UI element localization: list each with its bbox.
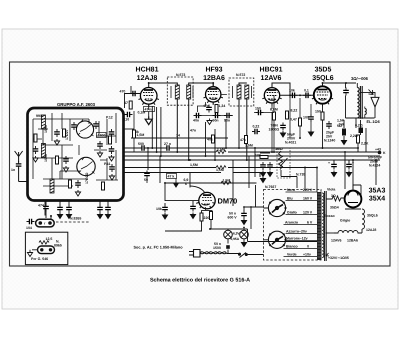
svg-text:1,5M: 1,5M (216, 168, 224, 172)
svg-text:Marrone–12v: Marrone–12v (286, 237, 308, 241)
svg-text:EL.1Ω6: EL.1Ω6 (367, 120, 380, 124)
svg-text:1,5M: 1,5M (223, 179, 231, 183)
svg-text:HCH81: HCH81 (136, 67, 159, 74)
svg-text:Nero: Nero (287, 188, 295, 192)
svg-text:12AJ8: 12AJ8 (137, 75, 158, 82)
svg-text:N.8265: N.8265 (70, 217, 81, 221)
svg-text:35Ω4: 35Ω4 (330, 206, 339, 210)
svg-text:N.4224: N.4224 (369, 164, 380, 168)
svg-text:17Ω27: 17Ω27 (65, 129, 69, 140)
svg-text:220: 220 (204, 216, 210, 220)
svg-text:1,5M: 1,5M (190, 163, 198, 167)
svg-text:10k: 10k (289, 89, 295, 93)
svg-text:0,47: 0,47 (290, 118, 297, 122)
svg-text:1,5M: 1,5M (137, 133, 145, 137)
svg-text:8965: 8965 (54, 244, 62, 248)
svg-text:47k: 47k (240, 138, 246, 142)
svg-text:150: 150 (315, 110, 321, 114)
svg-text:12,5: 12,5 (46, 237, 53, 241)
svg-text:+32V/∼1Ω05: +32V/∼1Ω05 (328, 256, 349, 260)
svg-text:Bianco: Bianco (286, 245, 298, 249)
svg-text:47: 47 (124, 101, 128, 105)
svg-text:P.11: P.11 (104, 162, 111, 166)
svg-text:12AV6: 12AV6 (331, 239, 341, 243)
svg-text:35QL6: 35QL6 (312, 75, 334, 82)
svg-text:47 n: 47 n (145, 108, 152, 112)
svg-text:1,5M: 1,5M (245, 144, 253, 148)
svg-text:0,95A: 0,95A (231, 237, 240, 241)
svg-text:+43: +43 (375, 148, 381, 152)
svg-text:1000: 1000 (44, 154, 48, 162)
svg-text:Verde: Verde (287, 253, 297, 257)
svg-text:160 V: 160 V (303, 197, 313, 201)
svg-text:Blu: Blu (287, 197, 293, 201)
svg-text:474: 474 (38, 204, 44, 208)
svg-text:0,1: 0,1 (304, 89, 309, 93)
svg-text:47 k: 47 k (168, 175, 175, 179)
svg-text:0: 0 (307, 245, 309, 249)
svg-text:1800Ω: 1800Ω (269, 128, 280, 132)
svg-text:470: 470 (120, 90, 126, 94)
svg-text:P.12: P.12 (106, 116, 113, 120)
svg-text:Grigio: Grigio (340, 219, 350, 223)
svg-text:Azzurro–20v: Azzurro–20v (286, 230, 307, 234)
svg-text:14: 14 (176, 134, 180, 138)
svg-text:8,22: 8,22 (291, 109, 298, 113)
svg-text:0,22: 0,22 (253, 125, 260, 129)
svg-text:Arancio: Arancio (285, 221, 298, 225)
svg-text:2,2K: 2,2K (361, 142, 369, 146)
svg-text:GRUPPO A.F. 2603: GRUPPO A.F. 2603 (57, 102, 96, 107)
svg-text:500: 500 (138, 142, 144, 146)
svg-text:150: 150 (255, 107, 261, 111)
svg-text:3Ω/∼006: 3Ω/∼006 (351, 76, 369, 81)
svg-text:Rosso: Rosso (324, 214, 335, 218)
svg-text:35A3: 35A3 (369, 188, 386, 195)
svg-text:6 V: 6 V (307, 221, 313, 225)
svg-text:40k: 40k (207, 138, 213, 142)
svg-text:2,2Ω: 2,2Ω (350, 134, 358, 138)
svg-text:220 V: 220 V (303, 188, 313, 192)
svg-text:1MΩ: 1MΩ (275, 147, 283, 151)
svg-text:12BA6: 12BA6 (347, 239, 358, 243)
svg-text:+: + (328, 161, 330, 165)
svg-text:N.572: N.572 (236, 73, 245, 77)
svg-text:N.1240: N.1240 (324, 139, 335, 143)
svg-text:100: 100 (303, 116, 309, 120)
svg-text:Soc. p. Az. FC 1.050-Milano: Soc. p. Az. FC 1.050-Milano (134, 245, 184, 249)
svg-text:Viola: Viola (327, 188, 335, 192)
svg-text:0,2Ω: 0,2Ω (355, 124, 363, 128)
svg-text:35X4: 35X4 (369, 196, 385, 203)
svg-text:Schema elettrico del ricevitor: Schema elettrico del ricevitore G 516-A (150, 278, 250, 284)
svg-text:6,3V: 6,3V (233, 232, 240, 236)
svg-text:5Ω: 5Ω (337, 124, 342, 128)
svg-text:50n: 50n (224, 119, 230, 123)
svg-text:120 V: 120 V (303, 211, 313, 215)
svg-text:10k: 10k (156, 207, 162, 211)
svg-text:1n: 1n (11, 168, 15, 172)
svg-text:600 V: 600 V (228, 216, 238, 220)
svg-text:Per G. 546: Per G. 546 (31, 257, 48, 261)
svg-text:DM70: DM70 (218, 197, 238, 206)
svg-text:k: k (185, 182, 187, 186)
svg-text:12AJ8: 12AJ8 (366, 228, 376, 232)
svg-text:HF93: HF93 (205, 67, 222, 74)
svg-text:104: 104 (26, 226, 32, 230)
svg-text:17Ω2Ω: 17Ω2Ω (85, 172, 89, 184)
svg-text:Giallo: Giallo (287, 211, 297, 215)
svg-text:1000: 1000 (44, 125, 48, 133)
svg-text:12BA6: 12BA6 (203, 75, 225, 82)
svg-text:35QL6: 35QL6 (367, 214, 378, 218)
svg-text:N.573: N.573 (176, 73, 185, 77)
svg-text:50n: 50n (213, 119, 219, 123)
svg-text:27 n: 27 n (164, 142, 171, 146)
svg-text:40n: 40n (193, 119, 199, 123)
svg-text:N.7927: N.7927 (265, 185, 276, 189)
svg-text:12AV6: 12AV6 (261, 75, 282, 82)
svg-text:47n: 47n (190, 129, 196, 133)
svg-text:HBC91: HBC91 (260, 67, 283, 74)
svg-text:1,5M: 1,5M (217, 148, 225, 152)
svg-text:+10v: +10v (303, 253, 311, 257)
svg-text:1400: 1400 (98, 134, 106, 138)
svg-text:N.4021: N.4021 (285, 141, 296, 145)
svg-text:99/1: 99/1 (36, 114, 43, 118)
svg-text:N.735: N.735 (296, 173, 305, 177)
svg-text:1500: 1500 (213, 246, 221, 250)
svg-text:1,34: 1,34 (219, 104, 226, 108)
svg-text:35D5: 35D5 (315, 67, 332, 74)
